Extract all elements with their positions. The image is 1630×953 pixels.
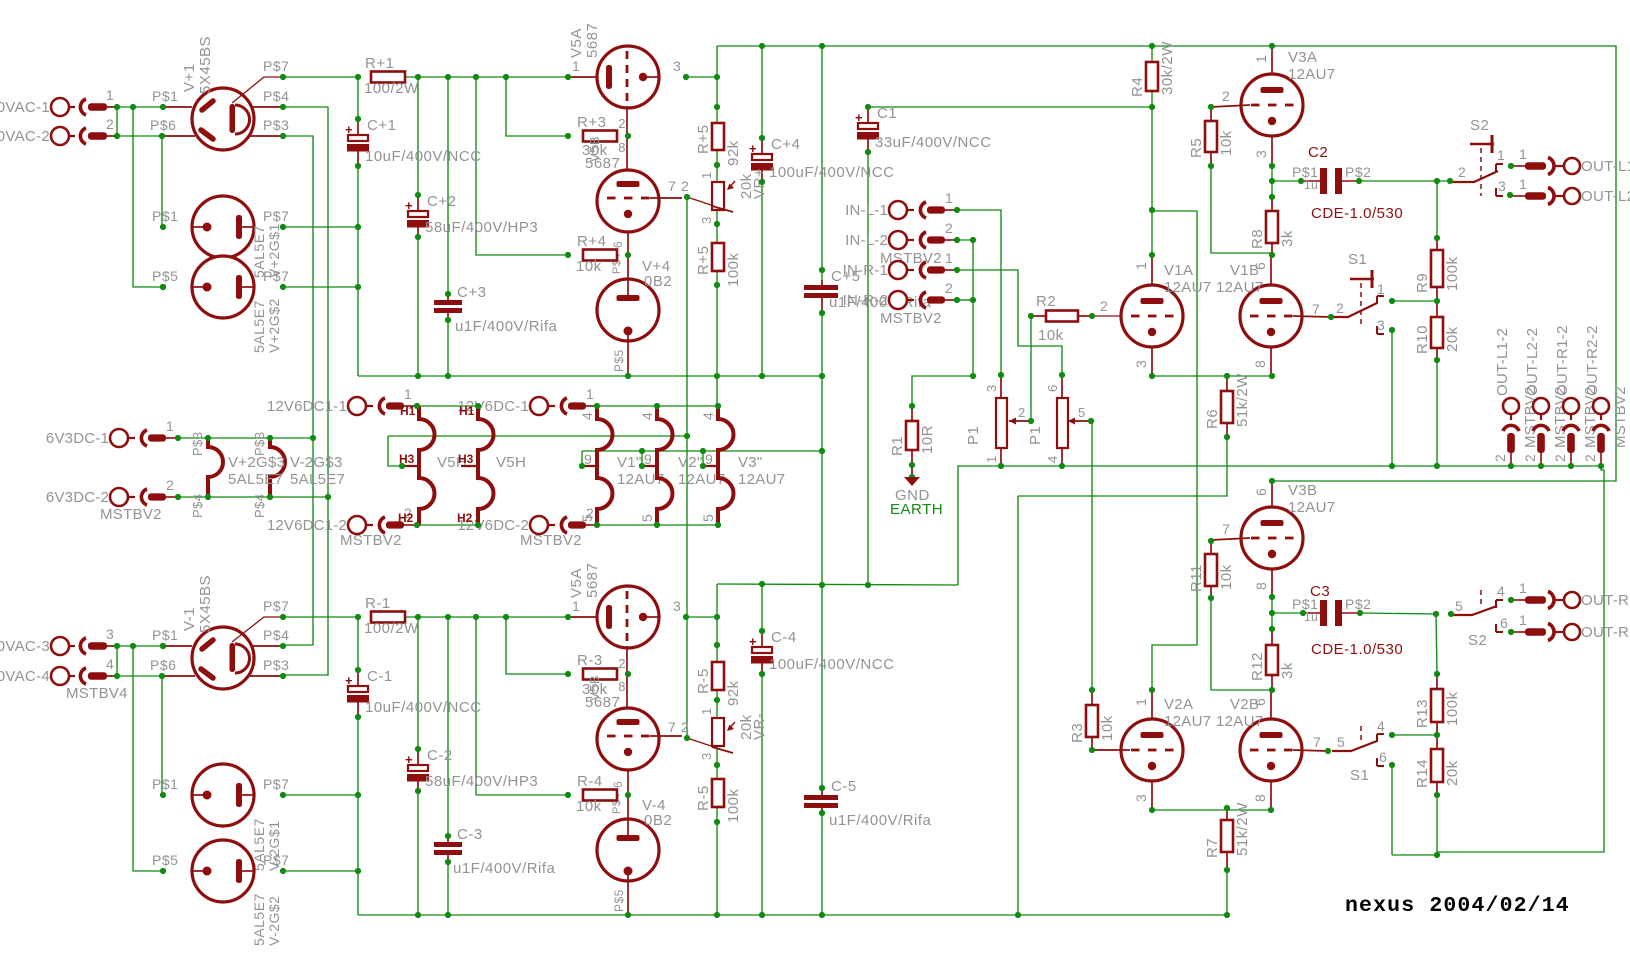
potentiometer P1 left xyxy=(965,375,1031,466)
svg-text:0VAC-2: 0VAC-2 xyxy=(0,128,50,145)
ground GND EARTH xyxy=(890,477,943,518)
wire C3 net xyxy=(1272,613,1436,614)
capacitor C-1 xyxy=(345,668,482,717)
svg-text:H2: H2 xyxy=(398,511,414,525)
svg-text:H1: H1 xyxy=(459,404,475,418)
svg-text:C+2: C+2 xyxy=(427,193,456,210)
wire top bus B+ xyxy=(717,46,1616,481)
svg-text:1: 1 xyxy=(404,386,412,402)
resistor R5 xyxy=(1188,121,1235,158)
labels heater V2" xyxy=(639,412,725,522)
svg-text:V-2G$3: V-2G$3 xyxy=(290,454,343,471)
labels V-4 xyxy=(612,797,672,912)
svg-text:H1: H1 xyxy=(400,404,416,418)
resistor R-3 xyxy=(577,652,617,680)
svg-text:8: 8 xyxy=(1253,582,1269,590)
connector OUT-L2 xyxy=(1511,176,1630,205)
svg-text:2: 2 xyxy=(945,220,953,236)
switch S1 low xyxy=(1313,718,1387,784)
potentiometer VR+ 20k xyxy=(687,168,768,224)
connector 0VAC-2 xyxy=(0,116,116,145)
wire C-4 column xyxy=(761,584,763,915)
pins R11 xyxy=(1210,540,1212,554)
svg-text:R2: R2 xyxy=(1036,293,1056,310)
wire 12V6DC-2 heater bottoms xyxy=(597,524,718,526)
resistor R10 xyxy=(1414,317,1461,354)
svg-text:5: 5 xyxy=(1455,598,1463,614)
connector OUT-L1 xyxy=(1511,146,1630,175)
wire R+1 to V5A pin1 xyxy=(405,76,568,78)
labels heater V3" xyxy=(700,412,785,522)
wire R6 bottom to rail xyxy=(1018,437,1227,915)
labels R+3 xyxy=(582,136,620,172)
svg-text:V+2G$2: V+2G$2 xyxy=(266,298,282,353)
tube V+2G$1 5AL5E7 xyxy=(192,196,254,258)
resistor R13 xyxy=(1414,689,1461,728)
svg-text:100uF/400V/NCC: 100uF/400V/NCC xyxy=(769,164,894,181)
pins R8 xyxy=(1271,197,1273,211)
connector IN-R-1 xyxy=(843,250,956,279)
svg-text:2: 2 xyxy=(1222,88,1230,104)
svg-text:1: 1 xyxy=(572,598,580,614)
connector OUT-R1-2 xyxy=(1552,325,1599,465)
svg-text:1: 1 xyxy=(1519,176,1527,192)
svg-text:OUT-R2-2: OUT-R2-2 xyxy=(1584,325,1601,396)
pin V-1 P$6 xyxy=(162,675,195,677)
svg-text:R+5: R+5 xyxy=(695,125,712,154)
svg-text:S1: S1 xyxy=(1350,767,1369,784)
pin V-1 P$1 xyxy=(163,645,192,647)
svg-text:1: 1 xyxy=(1519,580,1527,596)
svg-text:P$2: P$2 xyxy=(1345,596,1371,612)
svg-text:10k: 10k xyxy=(1099,715,1116,741)
svg-text:P$3: P$3 xyxy=(263,657,289,673)
svg-text:100/2W: 100/2W xyxy=(364,80,419,97)
svg-text:2: 2 xyxy=(1552,454,1568,462)
pins R3 xyxy=(1091,690,1093,705)
pin V-4 bottom xyxy=(627,881,629,915)
svg-text:OUT-L1-2: OUT-L1-2 xyxy=(1494,328,1511,396)
labels heater V5H 1 xyxy=(398,404,467,525)
pin R1 bottom xyxy=(911,450,913,477)
wire heater tap bus 436 xyxy=(388,436,687,466)
svg-text:8: 8 xyxy=(618,140,626,155)
svg-text:R11: R11 xyxy=(1188,564,1205,592)
svg-text:P$6: P$6 xyxy=(150,117,176,133)
wire R2 to P1 wiper xyxy=(1030,316,1032,421)
svg-text:4: 4 xyxy=(1377,718,1385,734)
wire 12V6DC1-1 heater tops xyxy=(417,405,478,407)
svg-text:2: 2 xyxy=(1458,164,1466,180)
tube V3B 12AU7 xyxy=(1211,507,1303,569)
svg-text:P1: P1 xyxy=(965,426,982,445)
pins R14 xyxy=(1436,735,1438,749)
svg-text:R+4: R+4 xyxy=(577,233,606,250)
labels heater V1" xyxy=(579,412,664,522)
wire 6V3DC-2 row xyxy=(178,496,328,498)
pin V-1 P$4 xyxy=(252,645,283,647)
labels V-2G$1 xyxy=(152,776,289,871)
junction dots right-top xyxy=(1149,104,1604,469)
svg-text:0VAC-4: 0VAC-4 xyxy=(0,668,50,685)
pin V-4 top xyxy=(627,795,629,819)
svg-text:V1B: V1B xyxy=(1230,262,1259,279)
svg-text:1u: 1u xyxy=(1304,610,1318,624)
wire P1 wiper to R3 xyxy=(1091,421,1093,690)
tube V-2G$2 5AL5E7 xyxy=(192,840,254,902)
svg-text:1: 1 xyxy=(1253,55,1269,63)
wire 0VAC-1 to V+1 P$1 xyxy=(105,106,163,108)
pin R1 top xyxy=(911,406,913,421)
svg-text:u1F/400V/Rifa: u1F/400V/Rifa xyxy=(455,318,558,335)
wire R+5 column xyxy=(716,46,718,406)
junction dots bottom-center xyxy=(415,628,1230,918)
svg-text:R4: R4 xyxy=(1129,77,1146,97)
svg-text:V5H: V5H xyxy=(496,454,526,471)
svg-text:R9: R9 xyxy=(1414,273,1431,293)
svg-text:OUT-L2-2: OUT-L2-2 xyxy=(1524,328,1541,396)
svg-text:MSTBV2: MSTBV2 xyxy=(100,506,162,523)
svg-text:7: 7 xyxy=(668,719,676,735)
svg-text:C1: C1 xyxy=(877,105,897,122)
svg-text:MSTBV2: MSTBV2 xyxy=(340,532,402,549)
svg-text:S2: S2 xyxy=(1468,632,1487,649)
svg-text:OUT-R2: OUT-R2 xyxy=(1581,624,1630,641)
svg-text:0VAC-3: 0VAC-3 xyxy=(0,638,50,655)
svg-text:12V6DC1-2: 12V6DC1-2 xyxy=(267,517,347,534)
svg-text:4: 4 xyxy=(1497,583,1505,599)
svg-text:V2A: V2A xyxy=(1164,696,1193,713)
pin V-1 P$7 xyxy=(232,617,283,642)
svg-text:IN-R-1: IN-R-1 xyxy=(843,262,888,279)
svg-text:5AL5E7: 5AL5E7 xyxy=(228,471,283,488)
svg-text:R-4: R-4 xyxy=(577,773,603,790)
svg-text:5AL5E7: 5AL5E7 xyxy=(251,893,267,946)
svg-text:3: 3 xyxy=(699,216,714,224)
svg-text:P$7: P$7 xyxy=(263,268,289,284)
svg-text:3: 3 xyxy=(1377,317,1385,333)
pins R13 xyxy=(1436,674,1438,689)
switch S2 low xyxy=(1452,583,1508,649)
svg-text:8: 8 xyxy=(1252,794,1268,802)
svg-text:6V3DC-1: 6V3DC-1 xyxy=(46,430,109,447)
svg-text:P$1: P$1 xyxy=(152,88,178,104)
svg-text:4: 4 xyxy=(106,656,114,672)
heater V-2G$3 xyxy=(252,431,285,518)
wire 0VAC-1 to P$5 xyxy=(133,107,163,287)
tube V5A 5687 upper xyxy=(568,23,681,170)
svg-text:P$5: P$5 xyxy=(612,349,626,372)
svg-text:2: 2 xyxy=(1100,298,1108,314)
svg-text:P$7: P$7 xyxy=(263,598,289,614)
connector 0VAC-3 xyxy=(0,626,116,655)
wire R13 R14 net xyxy=(1392,614,1437,855)
svg-text:5AL5E7: 5AL5E7 xyxy=(251,300,267,353)
connector 0VAC-1 xyxy=(0,87,116,116)
svg-text:30k/2W: 30k/2W xyxy=(1159,41,1176,95)
svg-text:2: 2 xyxy=(106,116,114,132)
svg-text:IN-L-1: IN-L-1 xyxy=(845,202,888,219)
svg-text:1: 1 xyxy=(1377,281,1385,297)
svg-text:1: 1 xyxy=(106,87,114,103)
svg-text:7: 7 xyxy=(1222,521,1230,537)
svg-text:1: 1 xyxy=(699,171,714,179)
svg-text:3: 3 xyxy=(1133,360,1149,368)
wire C+1 column xyxy=(357,77,359,376)
svg-text:R14: R14 xyxy=(1414,759,1431,788)
capacitor C-3 xyxy=(434,826,556,877)
svg-text:R-5: R-5 xyxy=(695,668,712,694)
svg-text:5687: 5687 xyxy=(584,563,601,598)
wire to R+3 xyxy=(506,77,568,136)
wire V-1 P$7 to R-1 xyxy=(283,616,358,618)
svg-text:12AU7: 12AU7 xyxy=(1216,279,1263,296)
svg-text:MSTBV4: MSTBV4 xyxy=(66,685,128,702)
svg-text:1: 1 xyxy=(586,386,594,402)
svg-text:MSTBV2: MSTBV2 xyxy=(520,532,582,549)
resistor R-5 100k xyxy=(695,779,742,823)
svg-text:1: 1 xyxy=(572,58,580,74)
switch S2 xyxy=(1452,117,1506,196)
svg-text:4: 4 xyxy=(700,412,716,420)
svg-text:51k/2W: 51k/2W xyxy=(1234,373,1251,427)
capacitor C+3 xyxy=(434,284,558,335)
wire IN-L-2 to R1 xyxy=(912,240,973,406)
svg-text:5X45BS: 5X45BS xyxy=(197,575,214,633)
tube V5B 5687 lower xyxy=(597,170,689,274)
svg-text:9: 9 xyxy=(644,451,652,467)
svg-text:2: 2 xyxy=(681,719,689,735)
svg-text:1: 1 xyxy=(1133,262,1149,270)
svg-text:2: 2 xyxy=(1336,300,1344,316)
svg-text:P$5: P$5 xyxy=(152,268,178,284)
svg-text:2: 2 xyxy=(945,280,953,296)
svg-text:12AU7: 12AU7 xyxy=(1216,713,1263,730)
svg-text:0VAC-1: 0VAC-1 xyxy=(0,99,50,116)
svg-text:2: 2 xyxy=(1492,454,1508,462)
svg-text:5X45BS: 5X45BS xyxy=(197,36,214,94)
svg-text:R10: R10 xyxy=(1414,325,1431,354)
resistor R-5 92k xyxy=(695,662,742,706)
svg-text:10uF/400V/NCC: 10uF/400V/NCC xyxy=(365,148,482,165)
tube V1A 12AU7 xyxy=(1121,285,1183,347)
svg-text:100k: 100k xyxy=(725,788,742,823)
resistor R1 xyxy=(889,421,936,456)
svg-text:V2": V2" xyxy=(678,454,703,471)
svg-text:100k: 100k xyxy=(1444,256,1461,291)
svg-text:R-1: R-1 xyxy=(365,595,391,612)
labels V2G$3 xyxy=(228,454,345,488)
wire R9 R10 net xyxy=(1392,181,1437,466)
pin V+1 P$6 xyxy=(162,135,195,137)
connector 12V6DC1-1 xyxy=(267,386,415,415)
svg-text:V3": V3" xyxy=(738,454,763,471)
capacitor C-2 xyxy=(405,747,538,791)
wire cathode pin7 column xyxy=(686,197,688,738)
pin V+1 P$3 xyxy=(250,135,283,137)
svg-text:5: 5 xyxy=(1337,734,1345,750)
connector 0VAC-4 xyxy=(0,656,116,685)
svg-text:3: 3 xyxy=(984,384,999,392)
svg-text:V-1: V-1 xyxy=(181,607,198,631)
connector 6V3DC-2 xyxy=(46,477,177,506)
resistor R+3 xyxy=(577,114,617,142)
wire R-1 to V5A pin1 low xyxy=(405,616,568,618)
svg-text:12AU7: 12AU7 xyxy=(1164,713,1211,730)
svg-text:3: 3 xyxy=(1253,150,1269,158)
resistor R-1 xyxy=(364,595,419,637)
wire V1A pin3 row xyxy=(1152,375,1272,377)
tube V5B 5687 lower low channel xyxy=(597,708,689,814)
svg-text:5: 5 xyxy=(639,514,655,522)
resistor R12 xyxy=(1249,645,1296,681)
svg-text:C-3: C-3 xyxy=(457,826,483,843)
wire ground bus 466 xyxy=(958,466,1601,585)
capacitor C+5 xyxy=(804,268,932,313)
svg-text:P$7: P$7 xyxy=(263,208,289,224)
svg-text:V+2G$3: V+2G$3 xyxy=(228,454,285,471)
resistor R7 xyxy=(1204,802,1251,858)
heater V1" xyxy=(580,406,613,525)
wire C+4 column xyxy=(761,46,763,376)
wire C5 column xyxy=(821,46,823,915)
wire C-3 column xyxy=(447,617,449,915)
svg-text:V2B: V2B xyxy=(1230,696,1259,713)
svg-text:C-1: C-1 xyxy=(367,668,393,685)
wire R5 to V1B pin6 xyxy=(1211,166,1272,255)
svg-text:1: 1 xyxy=(945,190,953,206)
resistor R14 xyxy=(1414,749,1461,788)
svg-text:4: 4 xyxy=(1045,455,1060,463)
svg-text:V1": V1" xyxy=(617,454,642,471)
wire IN-R-1 to P1 xyxy=(957,270,1062,375)
junction dots top-center xyxy=(415,43,1275,379)
svg-text:P$7: P$7 xyxy=(263,852,289,868)
svg-text:1: 1 xyxy=(166,418,174,434)
svg-text:IN-L-2: IN-L-2 xyxy=(845,232,888,249)
capacitor C+4 xyxy=(749,136,894,182)
resistor R4 xyxy=(1129,41,1176,97)
svg-text:2: 2 xyxy=(166,477,174,493)
svg-text:6: 6 xyxy=(611,241,625,248)
svg-text:R8: R8 xyxy=(1249,229,1266,249)
resistor R-4 xyxy=(576,773,617,815)
capacitor C-5 xyxy=(804,778,932,829)
svg-text:10k: 10k xyxy=(576,798,602,815)
svg-text:nexus 2004/02/14: nexus 2004/02/14 xyxy=(1345,894,1570,918)
wire V+1 P$3 heater B xyxy=(283,136,313,645)
svg-text:R7: R7 xyxy=(1204,838,1221,858)
svg-text:1: 1 xyxy=(1519,146,1527,162)
wire R11 to V2B pin6 xyxy=(1211,598,1272,690)
pins V3A xyxy=(1222,46,1335,166)
svg-text:100/2W: 100/2W xyxy=(364,620,419,637)
heater V+2G$3 xyxy=(190,431,223,518)
wire C1 to R4 xyxy=(868,106,1152,108)
heater V5H 2 xyxy=(461,406,494,525)
labels R-3 xyxy=(582,675,620,711)
wire C1 bottom rail xyxy=(867,152,869,585)
svg-text:7: 7 xyxy=(1312,301,1320,317)
pins V2B xyxy=(1216,690,1271,810)
svg-text:VR-: VR- xyxy=(751,713,768,740)
svg-text:6: 6 xyxy=(611,781,625,788)
capacitor C1 xyxy=(855,105,992,152)
svg-text:P$4: P$4 xyxy=(263,627,289,643)
connector OUT-R1 xyxy=(1511,580,1630,609)
svg-text:V1A: V1A xyxy=(1164,262,1193,279)
labels V+4 xyxy=(612,258,672,372)
svg-text:3: 3 xyxy=(673,598,681,614)
svg-text:OUT-L2: OUT-L2 xyxy=(1581,188,1630,205)
svg-text:R-3: R-3 xyxy=(577,652,603,669)
resistor R11 xyxy=(1188,554,1235,592)
svg-text:V+1: V+1 xyxy=(181,63,198,92)
svg-text:S2: S2 xyxy=(1470,117,1489,134)
connector OUT-L2-2 xyxy=(1522,328,1569,465)
svg-text:8: 8 xyxy=(618,679,626,694)
wire V2A pin3 row xyxy=(1152,809,1271,811)
svg-text:51k/2W: 51k/2W xyxy=(1234,802,1251,856)
tube V-4 0B2 xyxy=(597,819,659,881)
svg-text:7: 7 xyxy=(1313,734,1321,750)
svg-text:V5B: V5B xyxy=(587,675,602,701)
wire diode1 P$7 low xyxy=(283,794,358,796)
pin V+1 P$4 xyxy=(252,106,283,108)
svg-text:10k: 10k xyxy=(1038,327,1064,344)
wire C-1 column xyxy=(357,617,359,915)
capacitor C-4 xyxy=(749,629,894,674)
wire C+3 column xyxy=(447,77,449,376)
resistor R+1 xyxy=(364,55,419,97)
tube V+2G$2 5AL5E7 xyxy=(192,256,254,318)
svg-text:V5B: V5B xyxy=(587,136,602,162)
svg-text:100k: 100k xyxy=(1444,691,1461,726)
svg-text:20k: 20k xyxy=(1444,760,1461,786)
pins V1B xyxy=(1216,255,1271,376)
svg-text:R5: R5 xyxy=(1188,138,1205,158)
wire C-2 column xyxy=(417,617,419,915)
wire to R-4 xyxy=(476,617,568,795)
svg-text:12AU7: 12AU7 xyxy=(1288,66,1335,83)
wire 6V3DC-1 row xyxy=(178,437,313,439)
svg-text:8: 8 xyxy=(1252,360,1268,368)
pins V1A xyxy=(1133,255,1211,376)
labels heater V5H 2 xyxy=(457,404,526,525)
svg-text:R+5: R+5 xyxy=(695,246,712,275)
svg-text:C-4: C-4 xyxy=(771,629,797,646)
wire S1b pin6 down xyxy=(1391,765,1393,855)
tube V3A 12AU7 xyxy=(1211,74,1303,136)
svg-text:92k: 92k xyxy=(725,680,742,706)
svg-text:2: 2 xyxy=(618,116,626,131)
wire R4 stubs xyxy=(1151,46,1153,107)
svg-text:6: 6 xyxy=(1379,749,1387,765)
pin V+4 top xyxy=(627,255,629,279)
svg-text:P$1: P$1 xyxy=(152,776,178,792)
svg-text:P1: P1 xyxy=(1027,426,1044,445)
svg-text:IN-R-2: IN-R-2 xyxy=(843,292,888,309)
heater V2" xyxy=(640,406,673,525)
junction dots top-left xyxy=(114,74,361,500)
capacitor C3 xyxy=(1292,583,1403,658)
labels V-2G$2 xyxy=(152,852,289,946)
svg-text:C+4: C+4 xyxy=(771,136,800,153)
svg-text:12V6DC1-1: 12V6DC1-1 xyxy=(267,398,347,415)
pins R7 xyxy=(1226,808,1228,820)
wire 0VAC-3 to P$5 low xyxy=(133,646,163,871)
heater V3" xyxy=(701,406,733,525)
